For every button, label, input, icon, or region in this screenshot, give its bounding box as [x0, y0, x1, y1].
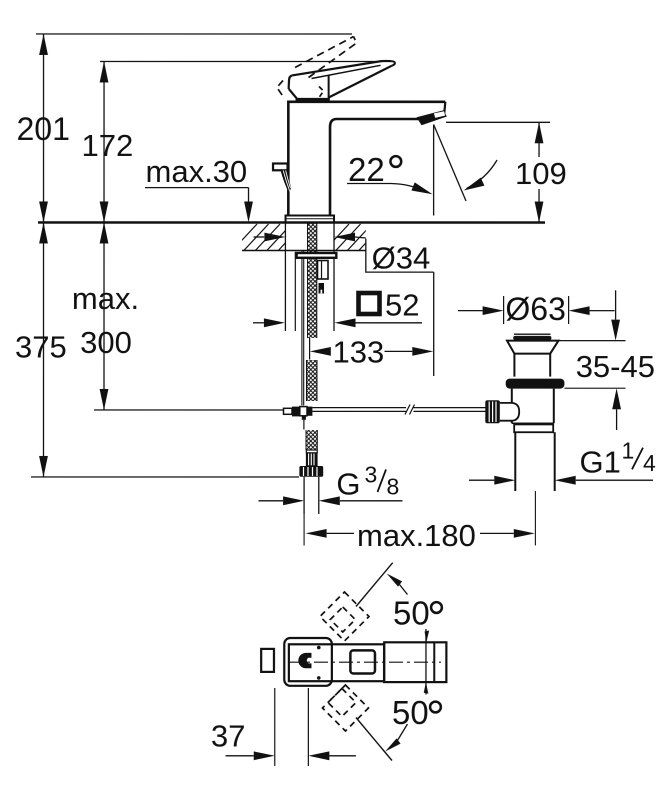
- dimension line 201/375 vertical: [42, 34, 44, 477]
- 22 deg slanted stream line: [434, 125, 466, 202]
- rubber seal: [506, 379, 565, 389]
- 50deg upper ray: [356, 563, 393, 607]
- faucet body right edge with spout corner: [330, 119, 337, 216]
- svg-text:max.180: max.180: [357, 518, 476, 553]
- svg-text:1: 1: [621, 438, 634, 464]
- svg-text:max.: max.: [72, 281, 139, 316]
- handle square top view: [350, 650, 375, 673]
- lever width dimension line: [425, 629, 427, 695]
- hose crosshatch above connector: [306, 430, 317, 450]
- tailpipe: [514, 432, 516, 491]
- spout underside: [337, 118, 419, 121]
- svg-text:52: 52: [385, 288, 419, 323]
- svg-text:35-45: 35-45: [576, 349, 655, 384]
- threaded shank (crosshatched): [308, 217, 317, 338]
- dim max180: [306, 529, 327, 538]
- dim 133: [310, 347, 331, 356]
- svg-text:375: 375: [15, 329, 67, 364]
- deck top line: [38, 221, 545, 224]
- svg-text:22: 22: [348, 151, 385, 188]
- waste flange: [507, 341, 559, 354]
- svg-text:109: 109: [515, 156, 567, 191]
- handle cap / body junction: [296, 98, 330, 102]
- waste neck: [513, 354, 515, 377]
- dimension line 172/max300 vertical: [103, 61, 105, 410]
- actuator knurled knob: [485, 400, 500, 423]
- dim 35-45 top: [615, 290, 617, 319]
- aerator (mousseur) tilted: [417, 110, 447, 125]
- sq52 arrows: [253, 322, 264, 324]
- svg-text:Ø63: Ø63: [505, 291, 565, 327]
- svg-text:50: 50: [393, 595, 430, 632]
- max300 extension line: [94, 409, 284, 411]
- hose break thin line: [309, 338, 311, 360]
- dia34 label bracket: [366, 239, 434, 272]
- centerline dash-dot: [289, 661, 441, 663]
- pop-up housing fittings: [318, 260, 329, 279]
- pop-up rod clamp: [283, 408, 292, 414]
- lever raised position (dashed): [295, 36, 354, 67]
- lever handle cap: [289, 75, 292, 89]
- dimension extension line top (201): [36, 33, 352, 35]
- spout end edge: [444, 102, 445, 114]
- G3/8 connector: [306, 450, 317, 453]
- svg-text:8: 8: [386, 474, 399, 500]
- hose tail tube: [303, 477, 305, 514]
- pop-up rod vertical: [301, 251, 303, 405]
- faucet body left edge: [287, 100, 290, 215]
- waste centerline extension: [534, 491, 536, 545]
- svg-text:3: 3: [364, 462, 377, 488]
- svg-text:Ø34: Ø34: [372, 241, 431, 276]
- G3/8 diameter arrows: [258, 500, 283, 502]
- svg-text:50: 50: [392, 694, 429, 731]
- lever arm: [292, 61, 382, 75]
- nut band: [514, 424, 553, 432]
- dia63 arrows: [458, 310, 483, 312]
- pop-up knob from below: [261, 649, 274, 672]
- dim 35-45 bottom: [612, 388, 621, 409]
- bottom view lever rect: [384, 642, 446, 682]
- actuator housing: [500, 403, 519, 421]
- svg-text:G1: G1: [579, 444, 620, 479]
- waste plug knob: [514, 333, 551, 335]
- square symbol: [359, 293, 380, 314]
- dia34 arrows at deck: [254, 236, 265, 238]
- svg-text:G: G: [336, 467, 360, 502]
- dia63 extension lines: [503, 296, 505, 324]
- svg-text:133: 133: [333, 334, 385, 369]
- G1 1/4 arrows: [469, 479, 494, 481]
- svg-text:max.30: max.30: [146, 154, 248, 189]
- 22deg arc with arrow: [467, 160, 498, 189]
- 375 bottom extension line: [31, 476, 299, 478]
- dimension line 109: [538, 122, 540, 157]
- 37 dimension: [274, 688, 276, 766]
- hole edge extension lines: [284, 222, 286, 331]
- svg-text:4: 4: [643, 450, 656, 476]
- vertical reference line at aerator: [433, 125, 435, 216]
- bottom view outer square base: [284, 638, 332, 686]
- hose lower crosshatch segment: [306, 360, 317, 401]
- 50deg lower ray: [356, 718, 392, 761]
- svg-text:300: 300: [80, 325, 132, 360]
- bottom view body rect: [289, 644, 384, 681]
- extension from dia34 bracket down: [433, 272, 435, 376]
- pop-up pull knob: [273, 163, 288, 170]
- dimension extension line (172): [100, 60, 391, 62]
- extension line at spout outlet: [446, 121, 550, 123]
- svg-text:172: 172: [82, 128, 134, 163]
- mounting nut plate: [297, 253, 337, 258]
- screw dots: [317, 646, 321, 650]
- faucet base plate: [286, 215, 335, 222]
- svg-text:37: 37: [211, 719, 245, 754]
- waste body: [511, 389, 513, 424]
- svg-text:201: 201: [17, 111, 70, 147]
- pull rod wedge: [281, 170, 292, 193]
- spout top edge: [288, 100, 445, 103]
- dashed handle positions: [320, 592, 369, 641]
- deck bottom line: [242, 249, 366, 251]
- horizontal pop-up rod to waste: [312, 407, 406, 409]
- aerator from below: [298, 653, 311, 668]
